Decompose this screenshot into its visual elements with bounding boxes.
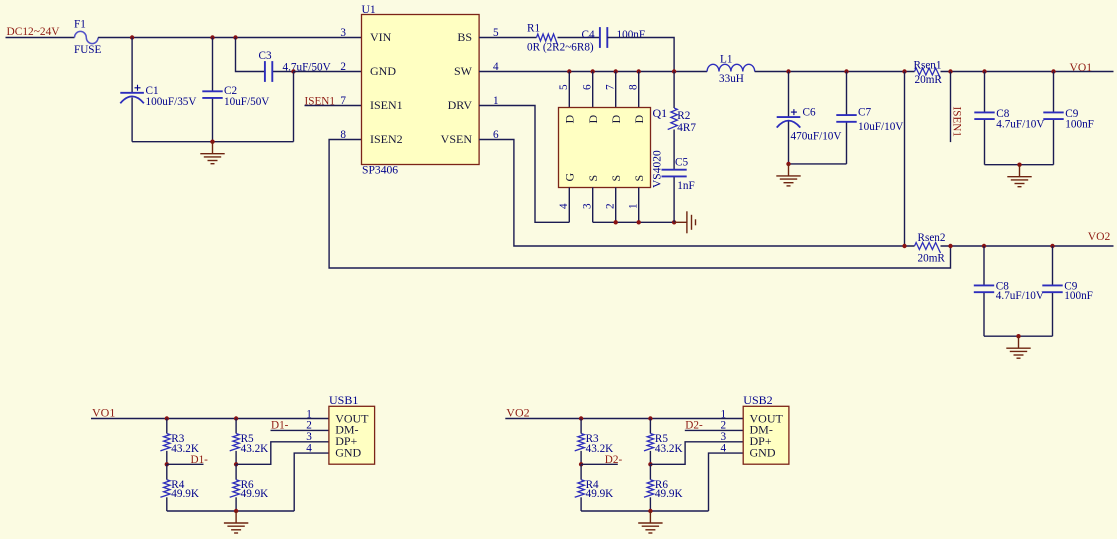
svg-text:R1: R1 <box>527 23 540 35</box>
wire Rsen2 to VO2 <box>941 245 1114 247</box>
ground USB2 <box>638 511 662 533</box>
junction VO2/C9 <box>1050 244 1054 248</box>
junction ground rail output1 <box>1017 163 1021 167</box>
resistor R5 43.2K USB1 <box>235 419 237 434</box>
svg-text:5: 5 <box>558 84 570 90</box>
svg-text:VO1: VO1 <box>92 406 115 420</box>
svg-text:49.9K: 49.9K <box>171 488 199 500</box>
svg-text:D1-: D1- <box>271 420 289 432</box>
transistor Q1 VS4020 <box>559 108 651 188</box>
svg-text:C5: C5 <box>675 157 688 169</box>
resistor R4 49.9K USB2 <box>580 464 582 479</box>
svg-text:ISEN1: ISEN1 <box>370 98 403 112</box>
junction input/C2 <box>210 35 214 39</box>
junction source/C5 <box>672 220 676 224</box>
wire ISEN2 pin 8 run <box>329 140 950 269</box>
svg-text:VO1: VO1 <box>1070 61 1093 74</box>
junction input/C3 <box>233 35 237 39</box>
wire C3 to ground rail <box>293 72 295 142</box>
svg-text:1: 1 <box>306 409 312 421</box>
svg-text:Q1: Q1 <box>653 106 668 120</box>
wire VO1 rail usb <box>91 418 329 420</box>
capacitor C6 470uF/10V <box>788 72 790 118</box>
junction Rsen2/ISEN2 <box>948 244 952 248</box>
junction VO1/C9 <box>1051 69 1055 73</box>
junction SW/Q1 pin6 <box>591 69 595 73</box>
wire GND pin USB2 <box>709 453 744 511</box>
svg-text:ISEN2: ISEN2 <box>370 132 403 146</box>
inductor L1 33uH <box>707 64 755 71</box>
svg-text:20mR: 20mR <box>918 252 946 264</box>
svg-text:4: 4 <box>306 442 312 454</box>
svg-text:8: 8 <box>340 129 346 141</box>
svg-text:VSEN: VSEN <box>441 132 473 146</box>
svg-text:D: D <box>586 115 600 124</box>
ground input <box>200 142 224 164</box>
ground USB1 <box>224 511 248 533</box>
ground source rail rotated <box>675 211 696 233</box>
op-amp U1 SP3406 regulator <box>362 15 480 165</box>
svg-text:49.9K: 49.9K <box>586 488 614 500</box>
wire Rsen1 to VO1 <box>941 71 1114 73</box>
junction L1/C6 <box>786 69 790 73</box>
svg-text:43.2K: 43.2K <box>241 443 269 455</box>
junction USB2 R3/R4 <box>579 462 583 466</box>
svg-text:4.7uF/10V: 4.7uF/10V <box>996 290 1044 302</box>
junction USB2 R5 top <box>648 416 652 420</box>
junction USB1 R3/R4 <box>165 462 169 466</box>
svg-text:S: S <box>609 175 623 182</box>
net label D2- divider USB2 <box>581 463 618 465</box>
svg-text:VO2: VO2 <box>1088 230 1111 243</box>
svg-text:100nF: 100nF <box>1064 290 1093 302</box>
svg-text:2: 2 <box>604 203 616 209</box>
svg-text:DC12~24V: DC12~24V <box>7 26 61 38</box>
resistor R2 4R7 <box>673 72 675 109</box>
junction SW/Q1 pin8 <box>637 69 641 73</box>
svg-text:D2-: D2- <box>605 454 623 466</box>
svg-text:7: 7 <box>340 95 346 107</box>
wire VSEN pin 6 run <box>479 140 914 247</box>
svg-text:F1: F1 <box>74 18 86 30</box>
junction Rsen1/ISEN1 <box>948 69 952 73</box>
junction source/pin1 <box>637 220 641 224</box>
resistor R5 43.2K USB2 <box>649 419 651 434</box>
svg-text:2: 2 <box>340 61 346 73</box>
wire GND pin USB1 <box>294 453 329 511</box>
svg-text:100nF: 100nF <box>617 29 646 41</box>
svg-text:4.7uF/10V: 4.7uF/10V <box>996 119 1044 131</box>
capacitor C8 4.7uF/10V output2 <box>983 246 985 285</box>
resistor R6 49.9K USB2 <box>649 464 651 479</box>
net label D1- divider USB1 <box>167 463 204 465</box>
wire ground rail USB1 <box>167 510 294 512</box>
wire BS pin 5 <box>479 37 536 39</box>
wire input rail <box>98 37 361 39</box>
svg-text:4: 4 <box>558 203 570 209</box>
net label D2- DM- USB2 <box>685 429 743 431</box>
junction ground rail USB2 <box>648 509 652 513</box>
svg-text:USB2: USB2 <box>743 393 772 407</box>
junction SW/R2 bootstrap <box>672 69 676 73</box>
junction L1/Rsen2 branch <box>902 69 906 73</box>
svg-text:D: D <box>563 115 577 124</box>
svg-text:2: 2 <box>306 420 312 432</box>
svg-text:6: 6 <box>581 84 593 90</box>
ground output1 <box>1007 165 1031 187</box>
svg-text:D: D <box>609 115 623 124</box>
svg-text:C6: C6 <box>803 107 816 119</box>
connector USB1 <box>329 406 375 464</box>
capacitor C8 4.7uF/10V output1 <box>984 72 986 113</box>
svg-text:2: 2 <box>721 420 727 432</box>
svg-text:BS: BS <box>457 30 472 44</box>
ground output2 <box>1006 336 1030 358</box>
resistor Rsen1 20mR <box>915 68 941 79</box>
junction Rsen2 left <box>902 244 906 248</box>
junction input/C1 <box>130 35 134 39</box>
wire GND pin 2 <box>294 71 362 73</box>
wire input ground rail <box>132 141 293 143</box>
svg-text:GND: GND <box>335 445 361 459</box>
svg-text:S: S <box>632 175 646 182</box>
svg-text:1: 1 <box>627 203 639 209</box>
connector USB2 <box>743 406 789 464</box>
svg-text:Rsen2: Rsen2 <box>918 232 946 244</box>
svg-text:L1: L1 <box>720 54 732 66</box>
svg-text:10uF/50V: 10uF/50V <box>224 96 269 108</box>
svg-text:3: 3 <box>340 27 346 39</box>
junction VO1/C8 <box>982 69 986 73</box>
junction VO2/C8 <box>982 244 986 248</box>
wire C4 to SW node <box>607 38 674 72</box>
junction USB2 R3 top <box>579 416 583 420</box>
svg-text:D: D <box>632 115 646 124</box>
wire DP+ to divider USB1 <box>236 442 329 465</box>
fuse F1 <box>75 31 99 43</box>
svg-text:VIN: VIN <box>370 30 392 44</box>
junction ground rail USB1 <box>234 509 238 513</box>
wires Q1 source pins <box>593 188 639 223</box>
capacitor C5 1nF <box>673 130 675 170</box>
svg-text:100nF: 100nF <box>1065 119 1094 131</box>
svg-text:G: G <box>563 173 577 182</box>
wire VO2 rail usb <box>505 418 743 420</box>
svg-text:100uF/35V: 100uF/35V <box>146 96 197 108</box>
wire input to fuse <box>6 37 75 39</box>
resistor R3 43.2K USB1 <box>166 419 168 434</box>
svg-text:43.2K: 43.2K <box>655 443 683 455</box>
net label D1- DM- USB1 <box>271 429 329 431</box>
svg-text:SW: SW <box>454 64 473 78</box>
svg-text:SP3406: SP3406 <box>362 164 398 177</box>
capacitor C7 10uF/10V <box>846 72 848 116</box>
svg-text:C7: C7 <box>858 107 871 119</box>
capacitor C9 100nF output1 <box>1053 72 1055 113</box>
wire DRV pin 1 to gate <box>479 106 569 223</box>
wire ISEN1 pin 7 stub <box>305 105 362 107</box>
svg-text:0R (2R2~6R8): 0R (2R2~6R8) <box>527 42 594 54</box>
junction C3/GND pin <box>291 69 295 73</box>
svg-text:10uF/10V: 10uF/10V <box>858 121 903 133</box>
capacitor C9 100nF output2 <box>1052 246 1054 285</box>
svg-text:49.9K: 49.9K <box>241 488 269 500</box>
junction USB2 R5/R6 <box>648 462 652 466</box>
svg-text:470uF/10V: 470uF/10V <box>791 131 842 143</box>
svg-text:GND: GND <box>750 445 776 459</box>
resistor R3 43.2K USB2 <box>580 419 582 434</box>
junction USB1 R5/R6 <box>234 462 238 466</box>
svg-text:USB1: USB1 <box>329 393 358 407</box>
svg-text:FUSE: FUSE <box>74 44 102 56</box>
svg-text:U1: U1 <box>362 3 376 16</box>
svg-text:Rsen1: Rsen1 <box>914 60 942 72</box>
resistor Rsen2 20mR <box>915 243 941 254</box>
svg-text:4R7: 4R7 <box>677 122 696 134</box>
junction ground rail <box>210 140 214 144</box>
svg-text:ISEN1: ISEN1 <box>951 107 963 137</box>
capacitor C4 100nF <box>600 27 607 48</box>
junction L1/C7 <box>844 69 848 73</box>
svg-text:49.9K: 49.9K <box>655 488 683 500</box>
svg-text:C3: C3 <box>259 50 272 62</box>
capacitor C1 100uF/35V <box>131 38 133 93</box>
junction source/pin2 <box>614 220 618 224</box>
wire C8 C9 ground rail output1 <box>985 164 1054 166</box>
wire Q1 gate pin <box>568 188 570 223</box>
wire DP+ to divider USB2 <box>650 442 743 465</box>
wires Q1 drain pins <box>569 72 638 108</box>
svg-text:D2-: D2- <box>685 420 703 432</box>
svg-text:7: 7 <box>604 84 616 90</box>
wire L1 node to Rsen2 <box>904 72 906 247</box>
junction C6 rail <box>786 162 790 166</box>
junction USB1 R3 top <box>165 416 169 420</box>
resistor R6 49.9K USB1 <box>235 464 237 479</box>
svg-text:R2: R2 <box>677 110 690 122</box>
svg-text:C4: C4 <box>582 29 595 41</box>
svg-text:33uH: 33uH <box>719 73 744 85</box>
wire L1 to Rsen1 <box>755 71 915 73</box>
junction SW/Q1 pin7 <box>614 69 618 73</box>
wire C8 C9 ground rail output2 <box>984 335 1053 337</box>
junction ground rail output2 <box>1016 334 1020 338</box>
svg-text:3: 3 <box>721 431 727 443</box>
wire R1 to C4 <box>558 37 600 39</box>
svg-text:3: 3 <box>306 431 312 443</box>
capacitor C2 10uF/50V <box>212 38 214 92</box>
svg-text:S: S <box>586 175 600 182</box>
capacitor C3 4.7uF/50V <box>236 38 265 72</box>
junction SW/Q1 pin5 <box>567 69 571 73</box>
wire C6 C7 ground rail <box>789 163 847 165</box>
svg-text:1nF: 1nF <box>677 180 694 192</box>
svg-text:20mR: 20mR <box>915 74 943 86</box>
net label ISEN1 vertical stub <box>950 72 952 143</box>
resistor R1 0R <box>537 34 558 45</box>
svg-text:8: 8 <box>627 84 639 90</box>
svg-text:1: 1 <box>721 409 727 421</box>
svg-text:DRV: DRV <box>448 98 473 112</box>
wire source rail <box>593 221 675 223</box>
wire ground rail USB2 <box>581 510 708 512</box>
ground output filter <box>776 164 800 186</box>
svg-text:D1-: D1- <box>191 454 209 466</box>
resistor R4 49.9K USB1 <box>166 464 168 479</box>
svg-text:3: 3 <box>581 203 593 209</box>
wire SW rail pin 4 <box>479 71 707 73</box>
svg-text:4: 4 <box>721 442 727 454</box>
junction USB1 R5 top <box>234 416 238 420</box>
svg-text:GND: GND <box>370 64 396 78</box>
svg-text:VO2: VO2 <box>506 406 529 420</box>
